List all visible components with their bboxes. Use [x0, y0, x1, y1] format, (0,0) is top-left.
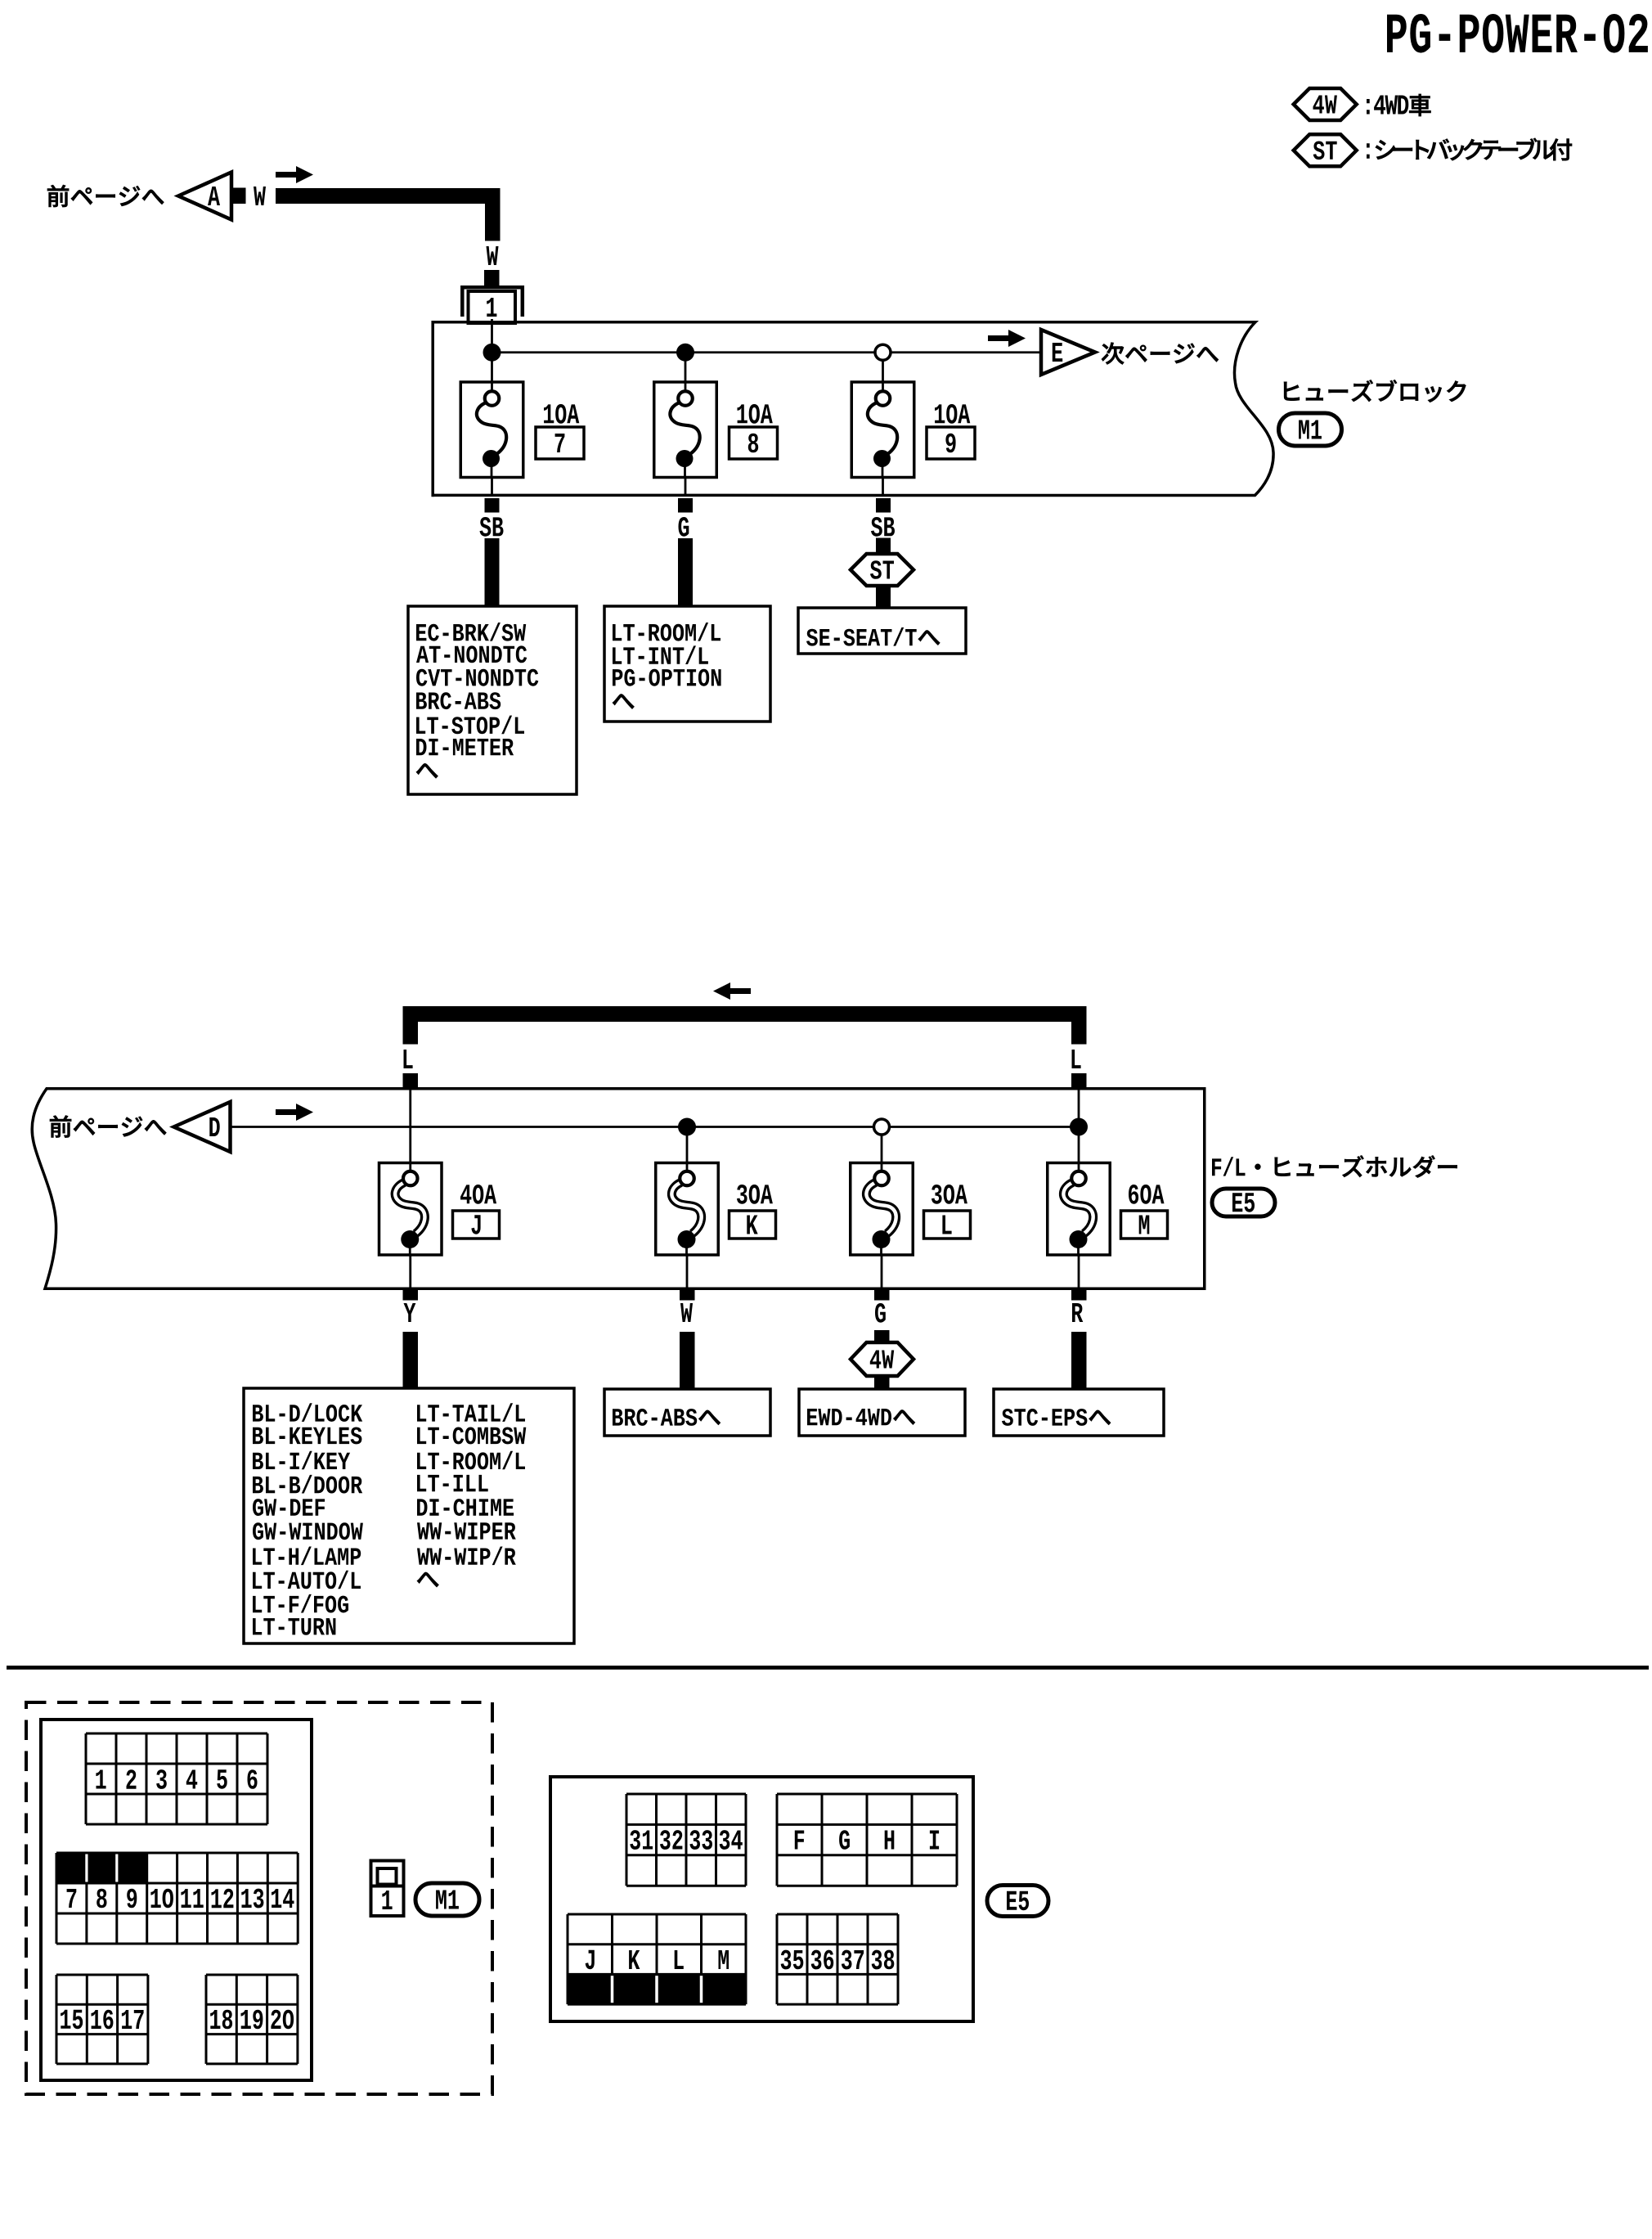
wire R thick to STC box: [1071, 1332, 1087, 1389]
connector E5 cavity grid J K L M with blocked cells: [568, 1914, 746, 2004]
fusible link K 30A: [656, 1163, 776, 1256]
wire color label R: [1072, 1303, 1083, 1322]
fusible link J 40A: [379, 1163, 500, 1256]
wire Y thick to BL box: [403, 1332, 419, 1389]
wire color label W vertical: [487, 246, 499, 265]
wire fusible link L below holder: [874, 1255, 890, 1301]
wire color label W: [254, 187, 266, 205]
destination box SE-SEAT/T: [798, 608, 966, 654]
off-page connector A to previous page: [47, 173, 231, 220]
destination box STC-EPS: [994, 1389, 1164, 1436]
wire W stub from arrow A: [231, 188, 246, 205]
wire fusible link J below holder: [403, 1255, 419, 1301]
separator rule: [7, 1666, 1649, 1670]
connector E5 cavity grid 31-34: [626, 1794, 746, 1886]
junction node at fuse 7: [483, 344, 501, 362]
wire fuse 8 to G below block: [678, 478, 693, 513]
wire L stub into holder left: [403, 1073, 419, 1088]
connector terminal 1 icon: [371, 1861, 404, 1917]
fuse 7 10A: [460, 382, 584, 478]
destination box EWD-4WD: [799, 1389, 965, 1436]
off-page connector D from previous page: [50, 1102, 231, 1152]
wire fuse 9 tap: [882, 360, 884, 382]
connector designator E5 bottom: [987, 1886, 1048, 1917]
destination box BL list: [244, 1388, 574, 1643]
junction node at fusible link K: [678, 1118, 696, 1163]
fuse block label: [1284, 380, 1466, 402]
connector E5 body: [550, 1777, 973, 2021]
destination box LT-ROOM/L list: [604, 606, 770, 722]
flow arrow right on bus D: [276, 1104, 313, 1121]
connector E5 cavity grid 35-38: [777, 1914, 898, 2004]
holder label F/L fuse holder: [1212, 1156, 1457, 1178]
connector M1 body: [41, 1720, 312, 2080]
junction node at fuse 8: [676, 344, 694, 362]
wire color label L left: [404, 1050, 413, 1068]
wire L thick bus with two drops: [403, 1006, 1087, 1045]
connector designator M1: [1279, 413, 1342, 446]
connector designator E5: [1212, 1189, 1275, 1216]
wire color label SB fuse 7: [480, 517, 504, 537]
wire color label L right: [1072, 1050, 1081, 1068]
legend text 4WD vehicle: [1367, 94, 1431, 116]
title PG-POWER-02: [1387, 14, 1648, 53]
connector M1 dashed enclosure: [26, 1702, 492, 2094]
destination box BRC-ABS: [604, 1389, 770, 1436]
connector terminal 1 into fuse block: [462, 287, 523, 323]
connector designator M1 bottom: [415, 1883, 479, 1916]
junction node at fusible link M: [1070, 1090, 1088, 1163]
wire below ST to SE-SEAT box: [876, 585, 891, 609]
legend symbol 4W hexagon: [1294, 88, 1357, 120]
fusible link M 60A: [1048, 1163, 1168, 1256]
flow arrow left on thick bus: [713, 982, 751, 1000]
flow arrow right to connector E: [988, 330, 1026, 347]
wire fuse J drop: [409, 1090, 411, 1163]
fuse block M1 outline with torn right edge: [433, 322, 1273, 497]
wire color label Y: [404, 1303, 416, 1322]
wire below 4W to EWD box: [874, 1376, 890, 1389]
fuse 9 10A: [851, 382, 975, 478]
wire fuse 9 to SB below block: [876, 478, 891, 513]
wire color label G fuse 8: [679, 517, 689, 537]
legend text seat back table: [1367, 138, 1572, 160]
connector E5 cavity grid F G H I: [777, 1794, 957, 1886]
wire G thick to 4W option: [874, 1330, 890, 1343]
junction node at fusible link L open: [874, 1119, 890, 1163]
wire SB thick to EC box: [485, 538, 500, 607]
wire L stub into holder right: [1071, 1073, 1087, 1088]
wire W stub above connector 1: [484, 270, 500, 285]
wire fusible link K below holder: [680, 1255, 695, 1301]
connector M1 cavity grid 1-6: [86, 1733, 267, 1824]
wire W thick to BRC-ABS box: [680, 1332, 695, 1389]
wire SB thick to ST option: [876, 538, 891, 555]
wire from terminal 1 to fuse 7: [491, 319, 493, 382]
fusible link holder E5 outline with torn left edge: [32, 1089, 1205, 1289]
off-page connector E to next page: [1041, 330, 1219, 375]
connector M1 cavity grid 18-20: [206, 1975, 298, 2064]
wire G thick to LT box: [678, 538, 693, 607]
wire color label G fuse L: [875, 1303, 886, 1323]
connector M1 cavity grid 15-17: [56, 1975, 148, 2064]
destination box EC-BRK/SW list: [408, 606, 577, 794]
option connector 4W hexagon: [851, 1342, 914, 1376]
wire fuse 8 tap: [685, 353, 687, 382]
bus wire inside fuse block: [492, 351, 1042, 353]
fuse 8 10A: [654, 382, 778, 478]
wire fuse 7 to SB below block: [485, 478, 500, 513]
wire color label SB fuse 9: [871, 517, 895, 537]
option connector ST hexagon: [851, 554, 914, 586]
bus wire inside holder: [231, 1126, 1080, 1128]
connector M1 cavity grid 7-14 with blocked cells: [56, 1853, 298, 1944]
legend symbol ST hexagon: [1294, 134, 1357, 166]
wire color label W fuse K: [680, 1303, 693, 1322]
junction node at fuse 9 open: [875, 344, 891, 360]
wire fusible link M below holder: [1071, 1255, 1087, 1301]
flow arrow right on wire W: [276, 166, 313, 183]
fusible link L 30A: [851, 1163, 971, 1256]
wire W thick horizontal+vertical: [276, 188, 501, 241]
